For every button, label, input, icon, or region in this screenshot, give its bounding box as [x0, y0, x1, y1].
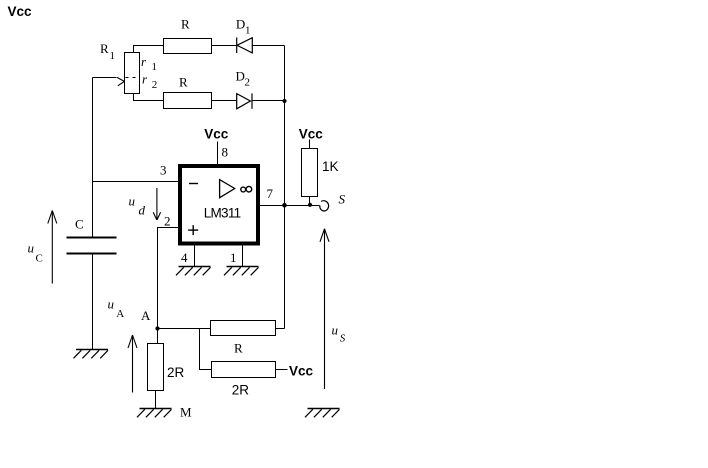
svg-text:1: 1 — [230, 250, 237, 265]
svg-text:1: 1 — [245, 25, 251, 37]
svg-text:C: C — [36, 252, 43, 264]
svg-text:R: R — [181, 17, 190, 32]
svg-text:2: 2 — [164, 213, 171, 228]
svg-text:2R: 2R — [167, 365, 185, 380]
svg-text:Vcc: Vcc — [299, 126, 324, 141]
svg-text:Vcc: Vcc — [204, 127, 229, 142]
svg-text:A: A — [116, 308, 124, 320]
svg-text:8: 8 — [222, 145, 229, 160]
svg-text:4: 4 — [181, 250, 188, 265]
svg-text:2R: 2R — [232, 383, 250, 398]
svg-text:2: 2 — [245, 77, 251, 89]
svg-text:1: 1 — [110, 50, 116, 62]
svg-text:D: D — [236, 68, 245, 83]
svg-text:u: u — [28, 241, 35, 256]
svg-text:Vcc: Vcc — [8, 4, 33, 19]
svg-text:2: 2 — [152, 79, 158, 91]
svg-text:u: u — [108, 296, 115, 311]
svg-text:LM311: LM311 — [204, 206, 242, 221]
svg-text:R: R — [234, 340, 243, 355]
svg-text:1K: 1K — [322, 159, 339, 174]
svg-text:C: C — [75, 217, 84, 232]
svg-text:S: S — [340, 333, 346, 345]
svg-text:u: u — [332, 323, 339, 338]
svg-text:1: 1 — [152, 61, 158, 73]
svg-text:3: 3 — [160, 163, 167, 178]
svg-text:A: A — [141, 308, 151, 323]
svg-text:d: d — [139, 203, 146, 218]
svg-text:D: D — [236, 16, 245, 31]
svg-text:R: R — [100, 41, 109, 56]
svg-text:M: M — [180, 404, 192, 419]
svg-text:S: S — [339, 192, 346, 207]
svg-text:R: R — [179, 74, 188, 89]
svg-text:u: u — [129, 194, 136, 209]
svg-text:7: 7 — [267, 186, 274, 201]
svg-text:Vcc: Vcc — [289, 364, 314, 379]
